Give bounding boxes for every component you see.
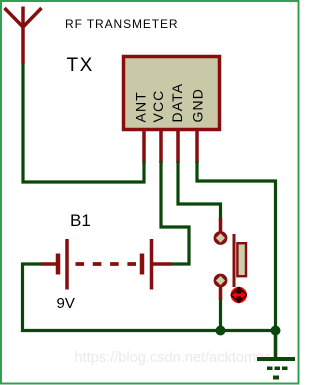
svg-text:DATA: DATA bbox=[169, 83, 185, 123]
push button terminal stub top bbox=[219, 218, 223, 232]
battery B1 bbox=[41, 239, 171, 290]
pin DATA bbox=[176, 130, 180, 163]
wire battery negative to bottom rail bbox=[23, 264, 277, 331]
wire antenna to ANT pin bbox=[23, 63, 146, 182]
push button terminal bottom bbox=[215, 275, 226, 286]
svg-text:TX: TX bbox=[67, 55, 94, 76]
wire VCC pin to battery positive bbox=[161, 161, 189, 264]
pin GND bbox=[195, 130, 199, 163]
svg-text:VCC: VCC bbox=[150, 90, 166, 123]
push button terminal top bbox=[215, 233, 226, 244]
wire ANT pin stub bbox=[142, 161, 145, 183]
push button terminal stub bottom bbox=[219, 286, 223, 300]
svg-text:RF TRANSMETER: RF TRANSMETER bbox=[65, 17, 178, 31]
wire DATA pin to button top bbox=[178, 161, 221, 220]
push button bar bbox=[233, 234, 236, 287]
pin ANT bbox=[142, 130, 146, 163]
svg-text:ANT: ANT bbox=[133, 91, 149, 122]
push button cap bbox=[237, 243, 246, 276]
svg-text:B1: B1 bbox=[70, 211, 91, 230]
junction button/rail bbox=[216, 326, 226, 336]
RF module TX bbox=[124, 57, 220, 130]
svg-text:GND: GND bbox=[190, 88, 206, 122]
ground bbox=[257, 331, 295, 380]
svg-text:9V: 9V bbox=[57, 295, 75, 312]
wire button bottom to rail bbox=[219, 298, 222, 331]
antenna bbox=[5, 7, 42, 64]
wire GND pin to right rail bbox=[197, 161, 276, 331]
button actuator bbox=[230, 286, 248, 303]
pin VCC bbox=[159, 130, 163, 163]
svg-text:https://blog.csdn.net/acktomas: https://blog.csdn.net/acktomas bbox=[75, 350, 272, 366]
junction right rail bbox=[271, 326, 281, 336]
